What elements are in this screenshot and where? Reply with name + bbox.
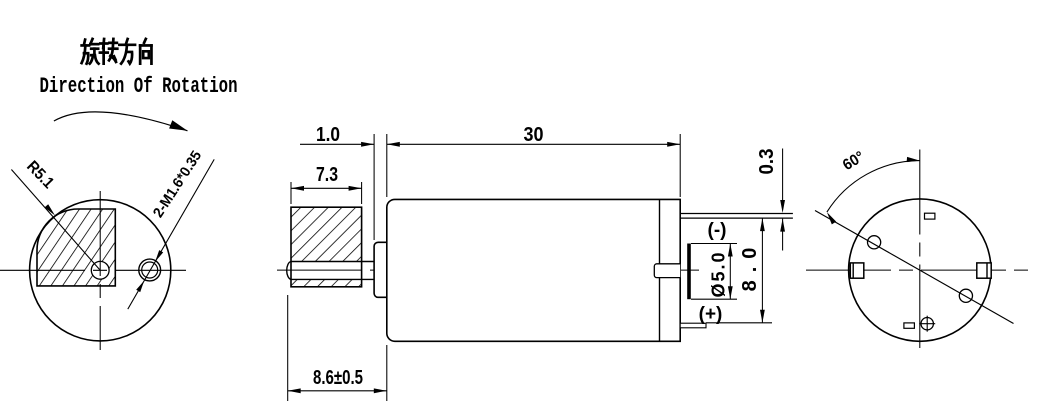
left terminal tab end view: [850, 263, 864, 278]
svg-text:Ø5.0: Ø5.0: [709, 250, 729, 297]
front bearing collar: [374, 242, 387, 297]
right view outer circle: [849, 199, 991, 341]
60 degree arc: [827, 161, 920, 213]
mounting hole lower right: [959, 289, 972, 302]
weight side view outline: [291, 207, 362, 287]
svg-text:0.3: 0.3: [756, 149, 778, 175]
eccentric weight cross-section (hatched): [37, 209, 115, 286]
right terminal tab end view: [977, 263, 991, 278]
svg-text:7.3: 7.3: [316, 164, 338, 186]
svg-text:2-M1.6*0.35: 2-M1.6*0.35: [150, 148, 205, 220]
leader line R5.1: [11, 170, 100, 271]
extension line end cap top: [679, 134, 681, 197]
rotation direction curved arrow: [54, 112, 188, 131]
extension line collar front: [373, 134, 375, 240]
mounting hole upper left: [868, 236, 881, 249]
left view vertical centerline: [99, 191, 101, 350]
side view centerline: [277, 269, 699, 271]
shaft bottom line: [291, 278, 374, 280]
motor body outline: [387, 199, 680, 341]
svg-text:60°: 60°: [840, 148, 868, 174]
dimension 0.3 arrows: [782, 149, 784, 202]
tapped hole 2-M1.6*0.35: [139, 259, 161, 281]
right view diagonal line: [815, 211, 1014, 324]
left view outer circle: [30, 200, 171, 341]
weight side view hatched lower: [291, 279, 362, 286]
screw with cross: [921, 318, 933, 330]
dimension 1.0 leader: [300, 143, 374, 145]
svg-text:8.6±0.5: 8.6±0.5: [313, 367, 363, 389]
shaft rounded tip: [287, 262, 291, 280]
leader line 2-M1.6*0.35: [128, 159, 214, 309]
dimension diameter 5.0: [691, 243, 737, 245]
svg-text:8.0: 8.0: [739, 240, 761, 292]
dimension 8.0: [761, 218, 763, 323]
dimension 30 line: [387, 143, 680, 145]
shaft hole at weight center: [91, 261, 109, 279]
title Chinese: rotation direction: [82, 39, 99, 64]
right view vertical centerline: [919, 150, 921, 349]
svg-text:30: 30: [524, 124, 544, 146]
rear shaft stub: [654, 264, 680, 278]
dimension 8.6 line: [288, 390, 387, 392]
negative terminal strip: [680, 213, 793, 215]
svg-text:1.0: 1.0: [316, 124, 340, 146]
weight side view hatched upper: [291, 207, 362, 261]
extension lines 8.6: [287, 295, 289, 401]
extension lines 7.3: [290, 182, 292, 204]
positive terminal tab: [680, 323, 706, 328]
shaft top line: [291, 261, 374, 263]
right view horizontal centerline: [806, 269, 1032, 271]
extension line motor face top: [386, 134, 388, 197]
left view horizontal centerline: [0, 269, 186, 271]
svg-text:(-): (-): [708, 220, 727, 241]
dimension 7.3 line: [291, 187, 362, 189]
top slot rectangle: [925, 213, 935, 219]
svg-text:Direction Of Rotation: Direction Of Rotation: [40, 74, 238, 99]
bottom slot rectangle: [904, 323, 915, 328]
end cap seam line: [659, 199, 661, 341]
svg-text:(+): (+): [699, 304, 723, 325]
svg-text:R5.1: R5.1: [23, 158, 57, 192]
brush card (black bar): [687, 244, 691, 300]
